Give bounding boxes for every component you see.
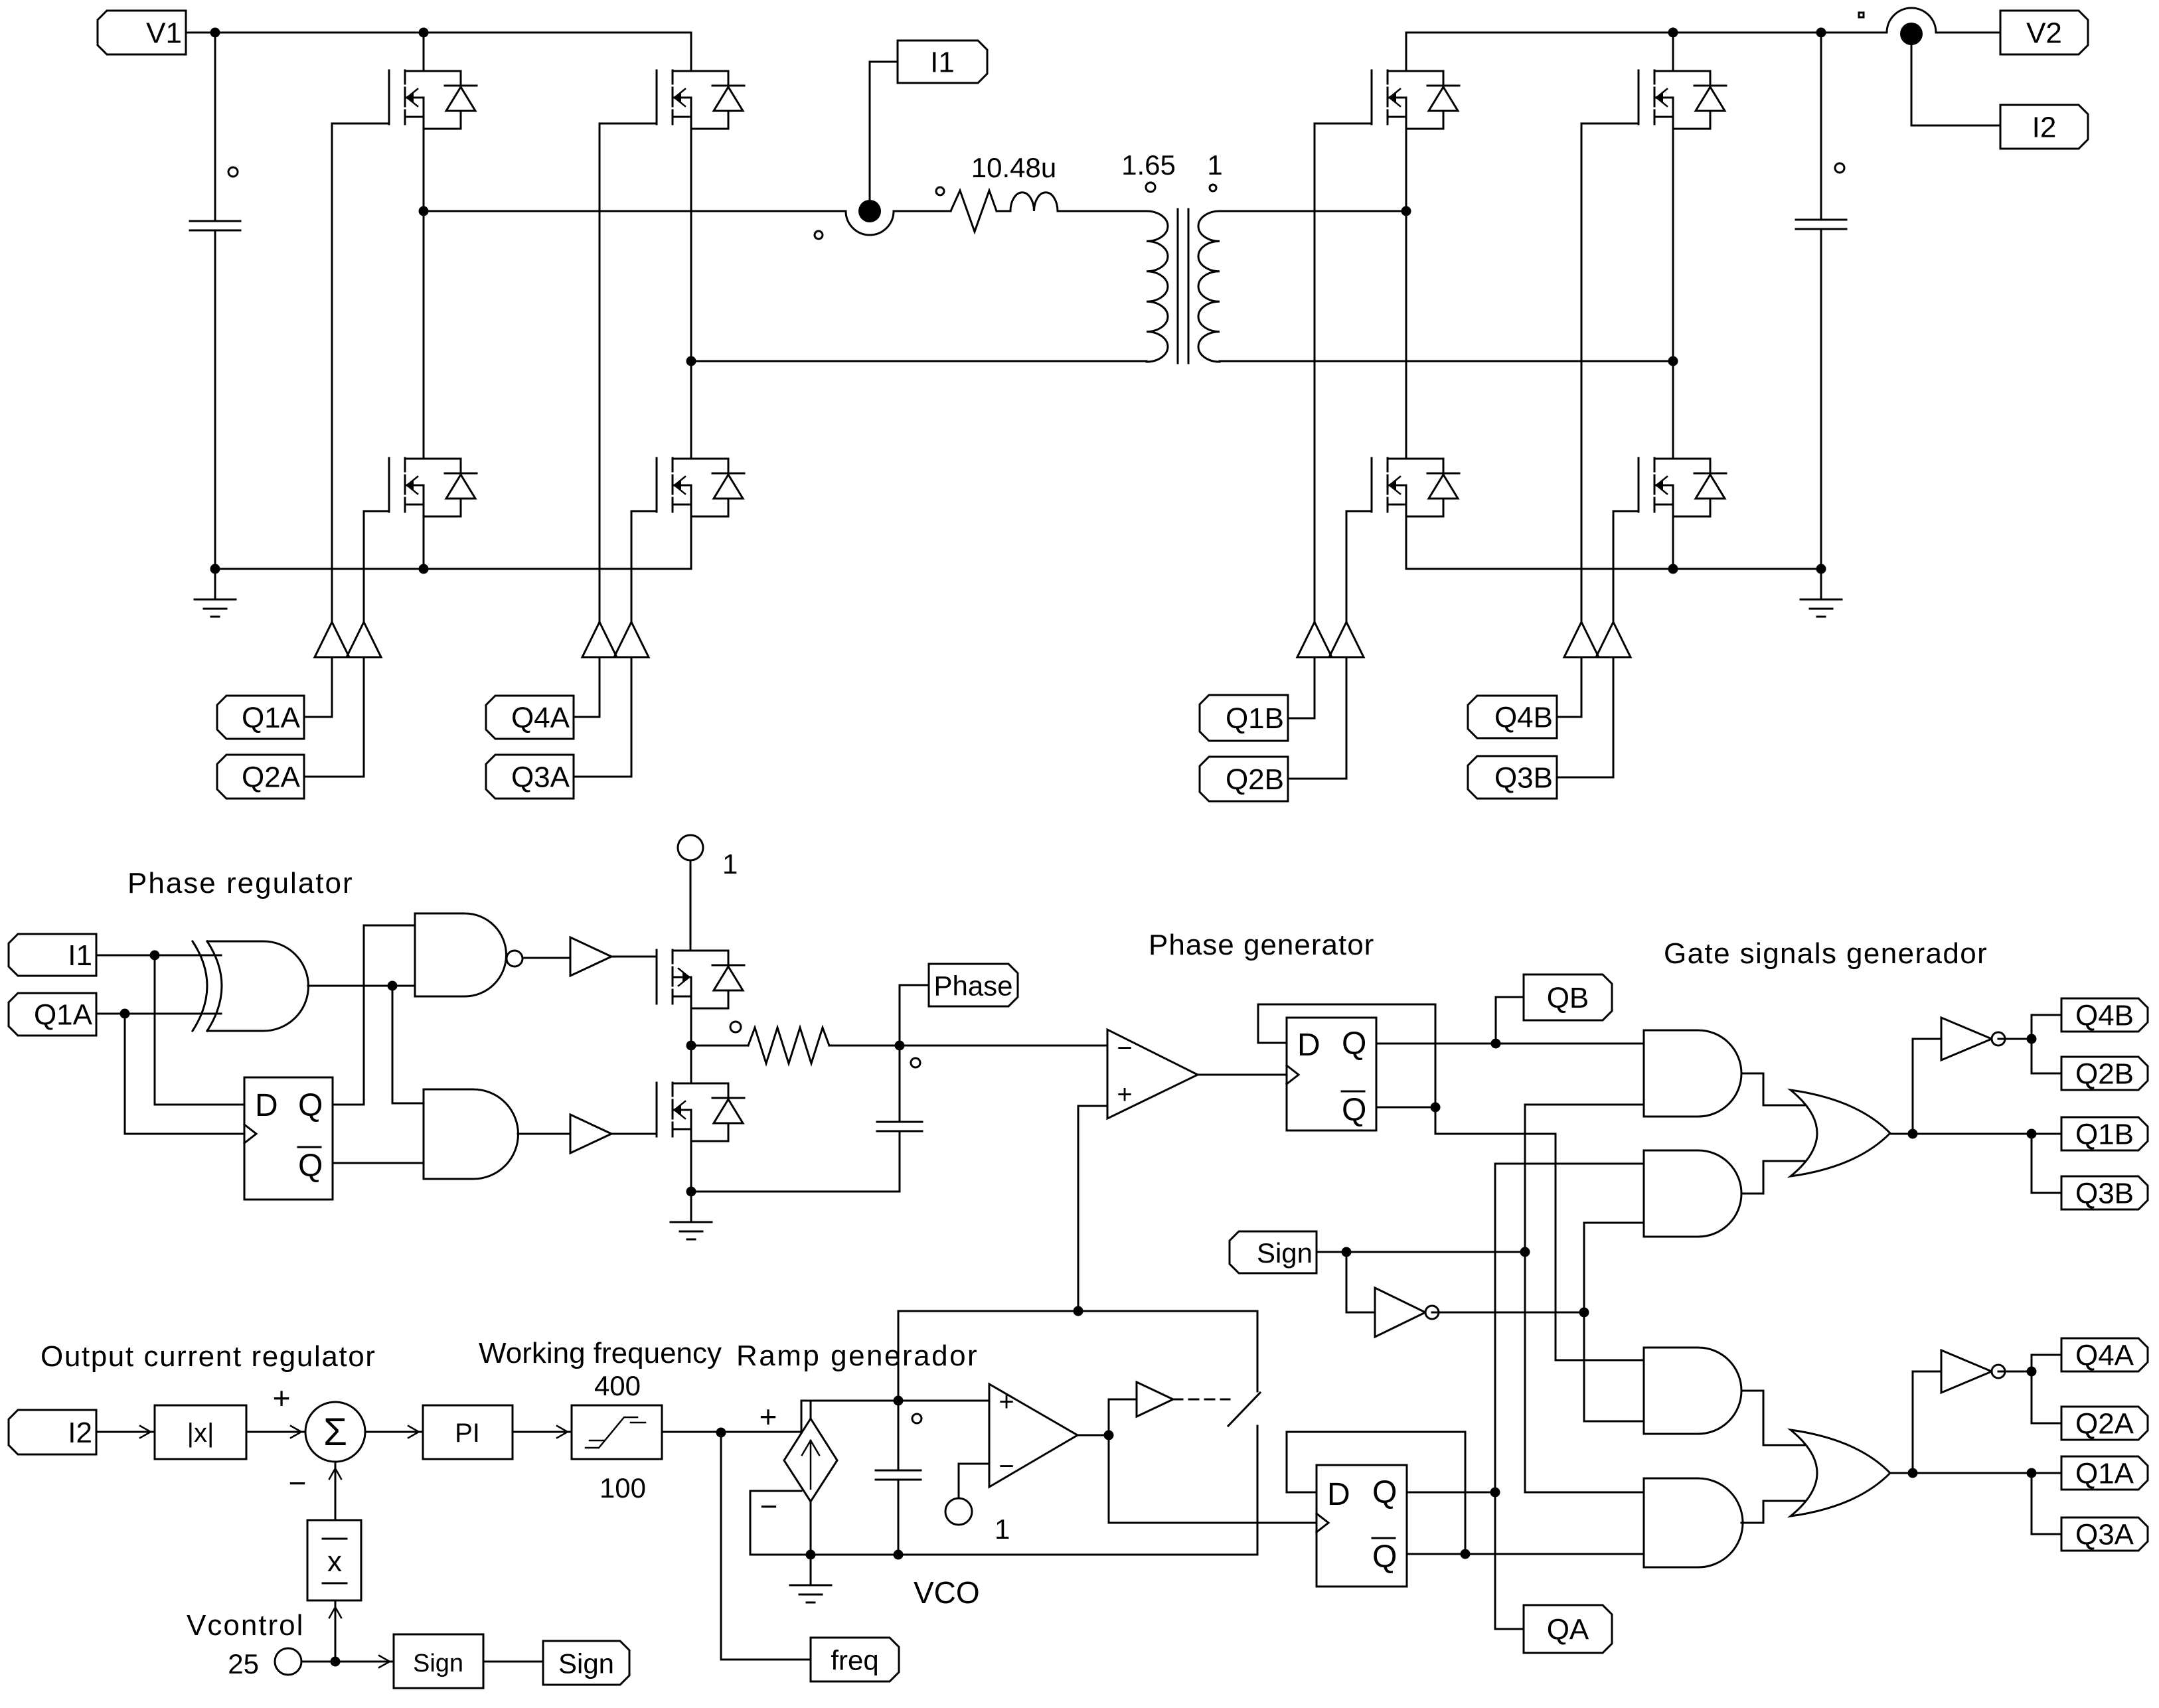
- svg-text:−: −: [289, 1466, 307, 1500]
- buffer U13 delay: [1137, 1382, 1173, 1417]
- junction Sign branch: [1342, 1247, 1352, 1257]
- wire secondary top rail: [1220, 210, 1406, 212]
- junction Sign bus: [1520, 1247, 1530, 1257]
- tag V1: [98, 11, 186, 54]
- marker circle RC cap: [911, 1058, 920, 1067]
- wire drain stub top FET B leg1: [1405, 33, 1407, 71]
- svg-text:Q4B: Q4B: [2075, 1000, 2134, 1032]
- svg-text:x: x: [327, 1545, 342, 1578]
- gate drivers B leg2: [1564, 622, 1631, 657]
- marker circle C_out: [1835, 163, 1844, 173]
- wire FF D feedback loop: [1258, 1004, 1435, 1107]
- resistor R phase filter: [691, 1028, 900, 1063]
- svg-text:Vcontrol: Vcontrol: [187, 1609, 304, 1642]
- svg-text:−: −: [760, 1489, 778, 1523]
- wire gate line bottom FET B leg1: [1346, 511, 1348, 622]
- wire ramp cap branch: [898, 1401, 900, 1555]
- svg-text:V2: V2: [2026, 17, 2062, 50]
- marker dot secondary: [1210, 185, 1216, 191]
- tag Q1A power: [217, 696, 304, 739]
- wire drain stub top FET A leg1: [423, 33, 425, 71]
- tag Q1A out: [2061, 1456, 2148, 1490]
- wire probe to V2: [1936, 32, 2000, 34]
- junction QA bar feedback: [1461, 1549, 1471, 1559]
- junction Qbar feedback: [1431, 1103, 1441, 1113]
- AND gate A2: [1644, 1478, 1743, 1567]
- tag Q2B power: [1200, 757, 1288, 801]
- wire xbar to sum: [335, 1462, 337, 1520]
- junction Q4A/Q2A branch: [2027, 1367, 2037, 1377]
- svg-text:Q3A: Q3A: [511, 761, 570, 794]
- wire to current source top: [801, 1401, 898, 1432]
- svg-text:Q1B: Q1B: [1226, 702, 1284, 735]
- comparator U12 VCO: [989, 1384, 1078, 1487]
- junction comparator out: [1104, 1431, 1114, 1440]
- wire upper mid rail (leg1 to transformer): [424, 210, 1147, 212]
- wire FF A Q out: [1407, 1492, 1495, 1494]
- summing junction: [305, 1402, 365, 1462]
- tag Q4A power: [486, 696, 574, 739]
- wire gate lead top FET B leg1: [1315, 123, 1372, 125]
- svg-text:+: +: [760, 1399, 777, 1434]
- mean block xbar: [307, 1520, 361, 1600]
- tag Sign out: [543, 1641, 629, 1685]
- probe dot output: [1900, 23, 1923, 45]
- controlled current source: [784, 1419, 837, 1502]
- tag Q4B out: [2061, 998, 2148, 1032]
- wire AND B2 out to OR: [1741, 1161, 1810, 1194]
- PI block: [423, 1405, 513, 1459]
- tag Q3B out: [2061, 1176, 2148, 1210]
- tag Q4A out: [2061, 1338, 2148, 1372]
- terminal 1V: [945, 1498, 972, 1525]
- junction OR A out: [1908, 1468, 1918, 1478]
- wire ramp to comparator plus: [1078, 1106, 1107, 1311]
- wire Q4B to driver: [1557, 657, 1581, 717]
- junction cap bottom: [894, 1550, 904, 1560]
- wire to Q3A tag: [2032, 1473, 2061, 1534]
- junction top rail leg1: [419, 28, 429, 38]
- NAND gate U3: [415, 913, 507, 996]
- svg-text:I1: I1: [68, 939, 92, 972]
- buffer U6: [570, 1115, 611, 1153]
- ground VCO: [790, 1555, 831, 1602]
- svg-text:+: +: [999, 1387, 1014, 1417]
- svg-text:Q4A: Q4A: [511, 702, 570, 734]
- wire inverter B input: [1913, 1038, 1941, 1040]
- svg-text:+: +: [273, 1381, 291, 1415]
- svg-text:1: 1: [1207, 149, 1222, 181]
- svg-text:Q1A: Q1A: [2075, 1458, 2134, 1490]
- flip-flop U8 phase gen: [1287, 1018, 1376, 1130]
- wire nSign bus: [1584, 1223, 1644, 1421]
- wire source stub bottom FET A leg1: [423, 516, 425, 569]
- junction Q1B branch: [2027, 1129, 2037, 1139]
- wire drain stub top FET B leg2: [1672, 33, 1674, 71]
- svg-text:I1: I1: [930, 46, 955, 79]
- wire to Q4B/Q2B tags: [2032, 1015, 2061, 1073]
- svg-text:Q: Q: [298, 1148, 323, 1184]
- gate drivers B leg1: [1297, 622, 1364, 657]
- wire gate lead top FET A leg2: [600, 123, 657, 125]
- mosfet bottom B leg2: [1639, 458, 1726, 516]
- svg-text:1.65: 1.65: [1121, 149, 1176, 181]
- tag I1 input: [9, 934, 96, 976]
- wire secondary bottom rail: [1220, 360, 1673, 362]
- svg-text:V1: V1: [146, 17, 182, 50]
- junction I1 branch: [150, 951, 160, 961]
- svg-text:Q2B: Q2B: [1226, 763, 1284, 796]
- junction V1/cap: [210, 28, 220, 38]
- mosfet top B leg2: [1639, 70, 1726, 129]
- svg-text:Q: Q: [1342, 1093, 1366, 1128]
- junction source bottom: [806, 1550, 816, 1560]
- svg-text:Sign: Sign: [413, 1650, 463, 1677]
- wire OR A out to Q1A: [1890, 1472, 2061, 1474]
- svg-text:Q1A: Q1A: [242, 702, 301, 734]
- wire gate lead top FET A leg1: [332, 123, 389, 125]
- svg-text:−: −: [1117, 1034, 1132, 1063]
- resistor L-R series 10.48u: [951, 191, 997, 232]
- wire switch to rail: [1257, 1426, 1259, 1555]
- wire Q1B to driver: [1288, 657, 1315, 718]
- wire gate line top FET A leg2: [599, 123, 601, 622]
- tag Q2B out: [2061, 1057, 2148, 1091]
- wire lower mid rail (leg2 to transformer): [691, 360, 1147, 362]
- svg-text:−: −: [999, 1452, 1014, 1481]
- junction nSign bus: [1579, 1308, 1589, 1318]
- junction bottom rail B leg2: [1668, 564, 1678, 574]
- wire inverter B out: [1998, 1038, 2032, 1040]
- wire gate lead bottom FET A leg2: [631, 510, 657, 512]
- svg-text:1: 1: [995, 1514, 1010, 1545]
- marker square output: [1859, 13, 1864, 17]
- wire limiter out: [662, 1431, 801, 1433]
- junction bottom rail B cap: [1816, 564, 1826, 574]
- tag Q3A power: [486, 755, 574, 799]
- wire gate line bottom FET B leg2: [1613, 511, 1615, 622]
- inverter U10 B: [1941, 1018, 1992, 1060]
- wire probe to I2: [1911, 45, 2000, 125]
- marker circle C_in: [228, 167, 238, 177]
- AND gate B1: [1644, 1030, 1741, 1117]
- svg-text:Q3A: Q3A: [2075, 1519, 2134, 1551]
- flip-flop U2 phase reg: [244, 1077, 333, 1200]
- wire mid A leg2: [690, 129, 692, 459]
- svg-text:|x|: |x|: [187, 1419, 214, 1448]
- svg-text:Sign: Sign: [1257, 1237, 1313, 1269]
- wire switch top contact: [1257, 1311, 1259, 1391]
- mosfet top A leg1: [389, 70, 477, 129]
- tag Q3B power: [1468, 756, 1557, 799]
- AND gate A1: [1644, 1348, 1741, 1434]
- capacitor C_out: [1796, 220, 1846, 229]
- svg-text:Phase generator: Phase generator: [1149, 929, 1374, 961]
- junction half-bridge mid node: [686, 1041, 696, 1051]
- svg-text:Phase: Phase: [933, 970, 1012, 1002]
- terminal node 1: [678, 835, 703, 860]
- tag Q1B power: [1200, 695, 1288, 741]
- current probe I1 dot: [858, 200, 881, 222]
- wire 1V to comparator minus: [959, 1464, 989, 1498]
- wire source stub bottom FET B leg1: [1405, 516, 1407, 569]
- wire top rail A: [186, 32, 691, 34]
- wire output cap branch: [1820, 33, 1822, 569]
- svg-text:I2: I2: [2032, 112, 2057, 144]
- junction comparator plus tap: [1074, 1306, 1083, 1316]
- junction bottom rail cap: [210, 564, 220, 574]
- wire Q4A to driver: [574, 657, 600, 717]
- svg-text:Q: Q: [298, 1088, 323, 1123]
- wire bottom rail B: [1406, 568, 1821, 570]
- wire AND A2 out to OR: [1741, 1501, 1810, 1523]
- wire Sign line: [1317, 1251, 1525, 1253]
- wire FF Q to NAND: [333, 925, 415, 1105]
- ground input side: [195, 569, 236, 617]
- wire I2 to abs: [96, 1431, 155, 1433]
- wire Q2B to driver: [1288, 657, 1346, 779]
- wire I1 to FF D: [155, 955, 244, 1105]
- current probe I1 hump: [846, 211, 894, 235]
- dashed link: [1173, 1399, 1230, 1401]
- tag freq: [811, 1638, 899, 1681]
- junction output cap: [1816, 28, 1826, 38]
- wire OR B out to Q1B: [1890, 1133, 2061, 1135]
- wire Q2A to driver: [304, 657, 364, 777]
- tag QA: [1524, 1605, 1612, 1653]
- wire to inverter B: [1912, 1039, 1914, 1134]
- mosfet bottom A leg1: [389, 458, 477, 516]
- gate drivers A leg1: [315, 622, 381, 657]
- wire Vcontrol node: [301, 1661, 394, 1663]
- wire Q1A to XOR: [96, 1013, 221, 1015]
- svg-text:Σ: Σ: [323, 1411, 347, 1454]
- svg-text:Output current regulator: Output current regulator: [40, 1340, 376, 1373]
- svg-text:Q: Q: [1372, 1539, 1397, 1575]
- svg-text:Q1B: Q1B: [2075, 1119, 2134, 1151]
- inverter U11 A: [1941, 1350, 1992, 1393]
- svg-text:Sign: Sign: [558, 1648, 614, 1679]
- wire mid B leg2: [1672, 129, 1674, 459]
- svg-text:Q2A: Q2A: [242, 761, 301, 794]
- wire mid A leg1: [423, 129, 425, 459]
- wire buffer to lower FET gate: [611, 1133, 657, 1135]
- wire drain stub top FET A leg2: [690, 33, 692, 71]
- svg-text:QA: QA: [1547, 1614, 1589, 1646]
- svg-text:Ramp generador: Ramp generador: [736, 1340, 979, 1372]
- wire I1 to XOR: [96, 955, 221, 957]
- XOR gate U1: [193, 941, 207, 1031]
- terminal Vcontrol: [275, 1648, 301, 1675]
- switch blade: [1228, 1393, 1260, 1426]
- transformer core: [1178, 209, 1188, 363]
- svg-text:100: 100: [600, 1472, 646, 1504]
- AND gate U5: [424, 1089, 519, 1179]
- buffer U4: [570, 937, 611, 976]
- wire XOR out to NAND: [392, 985, 415, 987]
- tag Q3A out: [2061, 1517, 2148, 1551]
- wire gate lead bottom FET A leg1: [364, 510, 389, 512]
- junction bottom rail leg1: [419, 564, 429, 574]
- wire source stub bottom FET B leg2: [1672, 516, 1674, 569]
- wire abs to sum: [246, 1431, 305, 1433]
- mosfet top B leg1: [1372, 70, 1459, 129]
- junction RC node: [895, 1041, 905, 1051]
- wire Q3B to driver: [1557, 657, 1613, 777]
- wire comparator out: [1078, 1435, 1109, 1436]
- wire mid B leg1: [1405, 129, 1407, 459]
- junction freq branch: [716, 1428, 726, 1438]
- current probe V2 hump: [1887, 8, 1936, 33]
- transformer secondary winding: [1198, 211, 1220, 362]
- wire QA bus: [1495, 1164, 1644, 1629]
- wire RC node to comparator minus: [900, 1045, 1107, 1047]
- wire to delay buffer: [1109, 1399, 1137, 1435]
- junction Q1A branch: [120, 1009, 130, 1019]
- wire inverter A out: [1998, 1371, 2032, 1373]
- svg-text:Q3B: Q3B: [2075, 1178, 2134, 1210]
- tag Sign input: [1230, 1231, 1317, 1273]
- wire to Phase tag: [900, 985, 929, 1046]
- wire FF Qbar out: [1376, 1107, 1435, 1109]
- svg-text:Q3B: Q3B: [1494, 762, 1553, 795]
- wire gate line bottom FET A leg1: [363, 511, 365, 622]
- svg-text:400: 400: [594, 1370, 641, 1401]
- capacitor C phase filter: [877, 1122, 922, 1131]
- wire buffer to upper FET gate: [611, 956, 657, 958]
- limiter block: [572, 1405, 662, 1459]
- wire NAND to buffer: [522, 957, 570, 959]
- svg-text:Gate signals generador: Gate signals generador: [1664, 937, 1988, 970]
- wire gate line bottom FET A leg2: [631, 511, 633, 622]
- svg-text:10.48u: 10.48u: [971, 152, 1056, 183]
- svg-text:Q1A: Q1A: [34, 999, 93, 1032]
- wire ramp to comparator plus: [898, 1400, 989, 1402]
- wire PI to limiter: [513, 1431, 572, 1433]
- tag V2: [2000, 11, 2088, 54]
- wire gate lead bottom FET B leg2: [1613, 510, 1639, 512]
- wire nSign line: [1432, 1312, 1584, 1314]
- svg-text:D: D: [1327, 1477, 1350, 1512]
- svg-text:25: 25: [228, 1648, 259, 1679]
- wire source stub bottom FET A leg2: [690, 516, 692, 569]
- svg-text:freq: freq: [831, 1645, 878, 1676]
- gate drivers A leg2: [582, 622, 649, 657]
- wire node1 to upper FET: [690, 860, 692, 951]
- svg-text:QB: QB: [1547, 982, 1589, 1014]
- tag Q2A power: [217, 755, 304, 799]
- mosfet bottom B leg1: [1372, 458, 1459, 516]
- wire ramp top rail: [898, 1311, 1257, 1401]
- transformer primary winding: [1147, 211, 1168, 362]
- junction QB tap: [1491, 1039, 1501, 1049]
- marker circle half-bridge: [730, 1022, 741, 1032]
- wire to inverter A: [1912, 1371, 1914, 1473]
- svg-text:+: +: [1117, 1080, 1132, 1109]
- wire inverter A input: [1913, 1371, 1941, 1373]
- OR gate A: [1791, 1430, 1890, 1516]
- mosfet upper phase reg: [657, 950, 744, 1008]
- wire FF A D feedback loop: [1287, 1432, 1465, 1554]
- wire FF Qbar to AND: [333, 1162, 424, 1164]
- ground output side: [1800, 569, 1842, 617]
- wire Sign to inverter: [1346, 1252, 1375, 1312]
- wire FF A Qbar out: [1407, 1553, 1465, 1555]
- svg-text:Phase regulator: Phase regulator: [127, 867, 354, 899]
- tag Phase: [929, 964, 1018, 1006]
- junction Vcontrol: [331, 1657, 341, 1667]
- wire AND A1 out to OR: [1741, 1391, 1810, 1445]
- junction Q1A branch: [2027, 1468, 2037, 1478]
- wire lower FET to ground: [690, 1141, 692, 1192]
- wire Q to AND B1: [1376, 1043, 1644, 1045]
- wire to freq tag: [721, 1433, 811, 1660]
- wire Qbar A to AND A2: [1465, 1553, 1644, 1555]
- junction QA tap: [1490, 1488, 1500, 1498]
- wire Sign bus: [1525, 1105, 1644, 1492]
- wire Qbar to AND A1: [1435, 1107, 1644, 1360]
- AND gate B2: [1644, 1150, 1741, 1237]
- wire gate line top FET B leg1: [1314, 123, 1316, 622]
- wire Vcontrol to xbar: [335, 1600, 337, 1662]
- junction B leg2 mid node: [1668, 356, 1678, 366]
- wire bottom rail A: [215, 568, 691, 570]
- marker circle probe: [815, 231, 823, 239]
- junction ramp cap node: [894, 1396, 904, 1406]
- wire Q1A to driver: [304, 657, 332, 717]
- wire gate line top FET B leg2: [1581, 123, 1583, 622]
- wire I1 tag to probe: [870, 62, 898, 211]
- wire to Q4A/Q2A tags: [2032, 1355, 2061, 1423]
- junction Q4B/Q2B branch: [2027, 1034, 2037, 1044]
- svg-text:1: 1: [722, 848, 738, 880]
- wire comparator out to FF clock: [1109, 1435, 1317, 1523]
- inductor 10.48u: [1010, 193, 1058, 211]
- OR gate B: [1791, 1090, 1890, 1176]
- marker circle resistor: [936, 187, 944, 195]
- svg-text:VCO: VCO: [914, 1575, 980, 1610]
- junction ground node phase reg: [686, 1187, 696, 1197]
- wire source to rail: [810, 1502, 812, 1555]
- abs block |x|: [155, 1405, 246, 1459]
- wire gate lead top FET B leg2: [1581, 123, 1639, 125]
- junction B leg1 mid node: [1401, 206, 1411, 216]
- mosfet top A leg2: [657, 70, 744, 129]
- svg-text:D: D: [255, 1088, 278, 1123]
- wire XOR out: [308, 985, 392, 987]
- tag Q2A out: [2061, 1407, 2148, 1440]
- wire Sign block to tag: [483, 1661, 543, 1663]
- wire Q1A to FF clk: [125, 1014, 244, 1134]
- svg-text:Q4B: Q4B: [1494, 702, 1553, 734]
- junction XOR out branch: [388, 981, 398, 991]
- wire gate lead bottom FET B leg1: [1346, 510, 1372, 512]
- wire AND B1 out to OR: [1741, 1073, 1810, 1105]
- inverter U9 sign: [1375, 1288, 1425, 1337]
- tag Q1A input: [9, 993, 96, 1036]
- capacitor C ramp: [876, 1470, 921, 1480]
- tag I2 input: [9, 1410, 96, 1454]
- tag Q4B power: [1468, 696, 1557, 738]
- marker dot primary: [1146, 183, 1155, 192]
- Sign function block: [394, 1634, 483, 1688]
- wire source minus loop: [750, 1491, 1257, 1555]
- tag QB: [1524, 974, 1612, 1020]
- svg-text:Q2B: Q2B: [2075, 1058, 2134, 1091]
- wire gate line top FET A leg1: [331, 123, 333, 622]
- wire half-bridge mid: [690, 1008, 692, 1083]
- mosfet lower phase reg: [657, 1083, 744, 1141]
